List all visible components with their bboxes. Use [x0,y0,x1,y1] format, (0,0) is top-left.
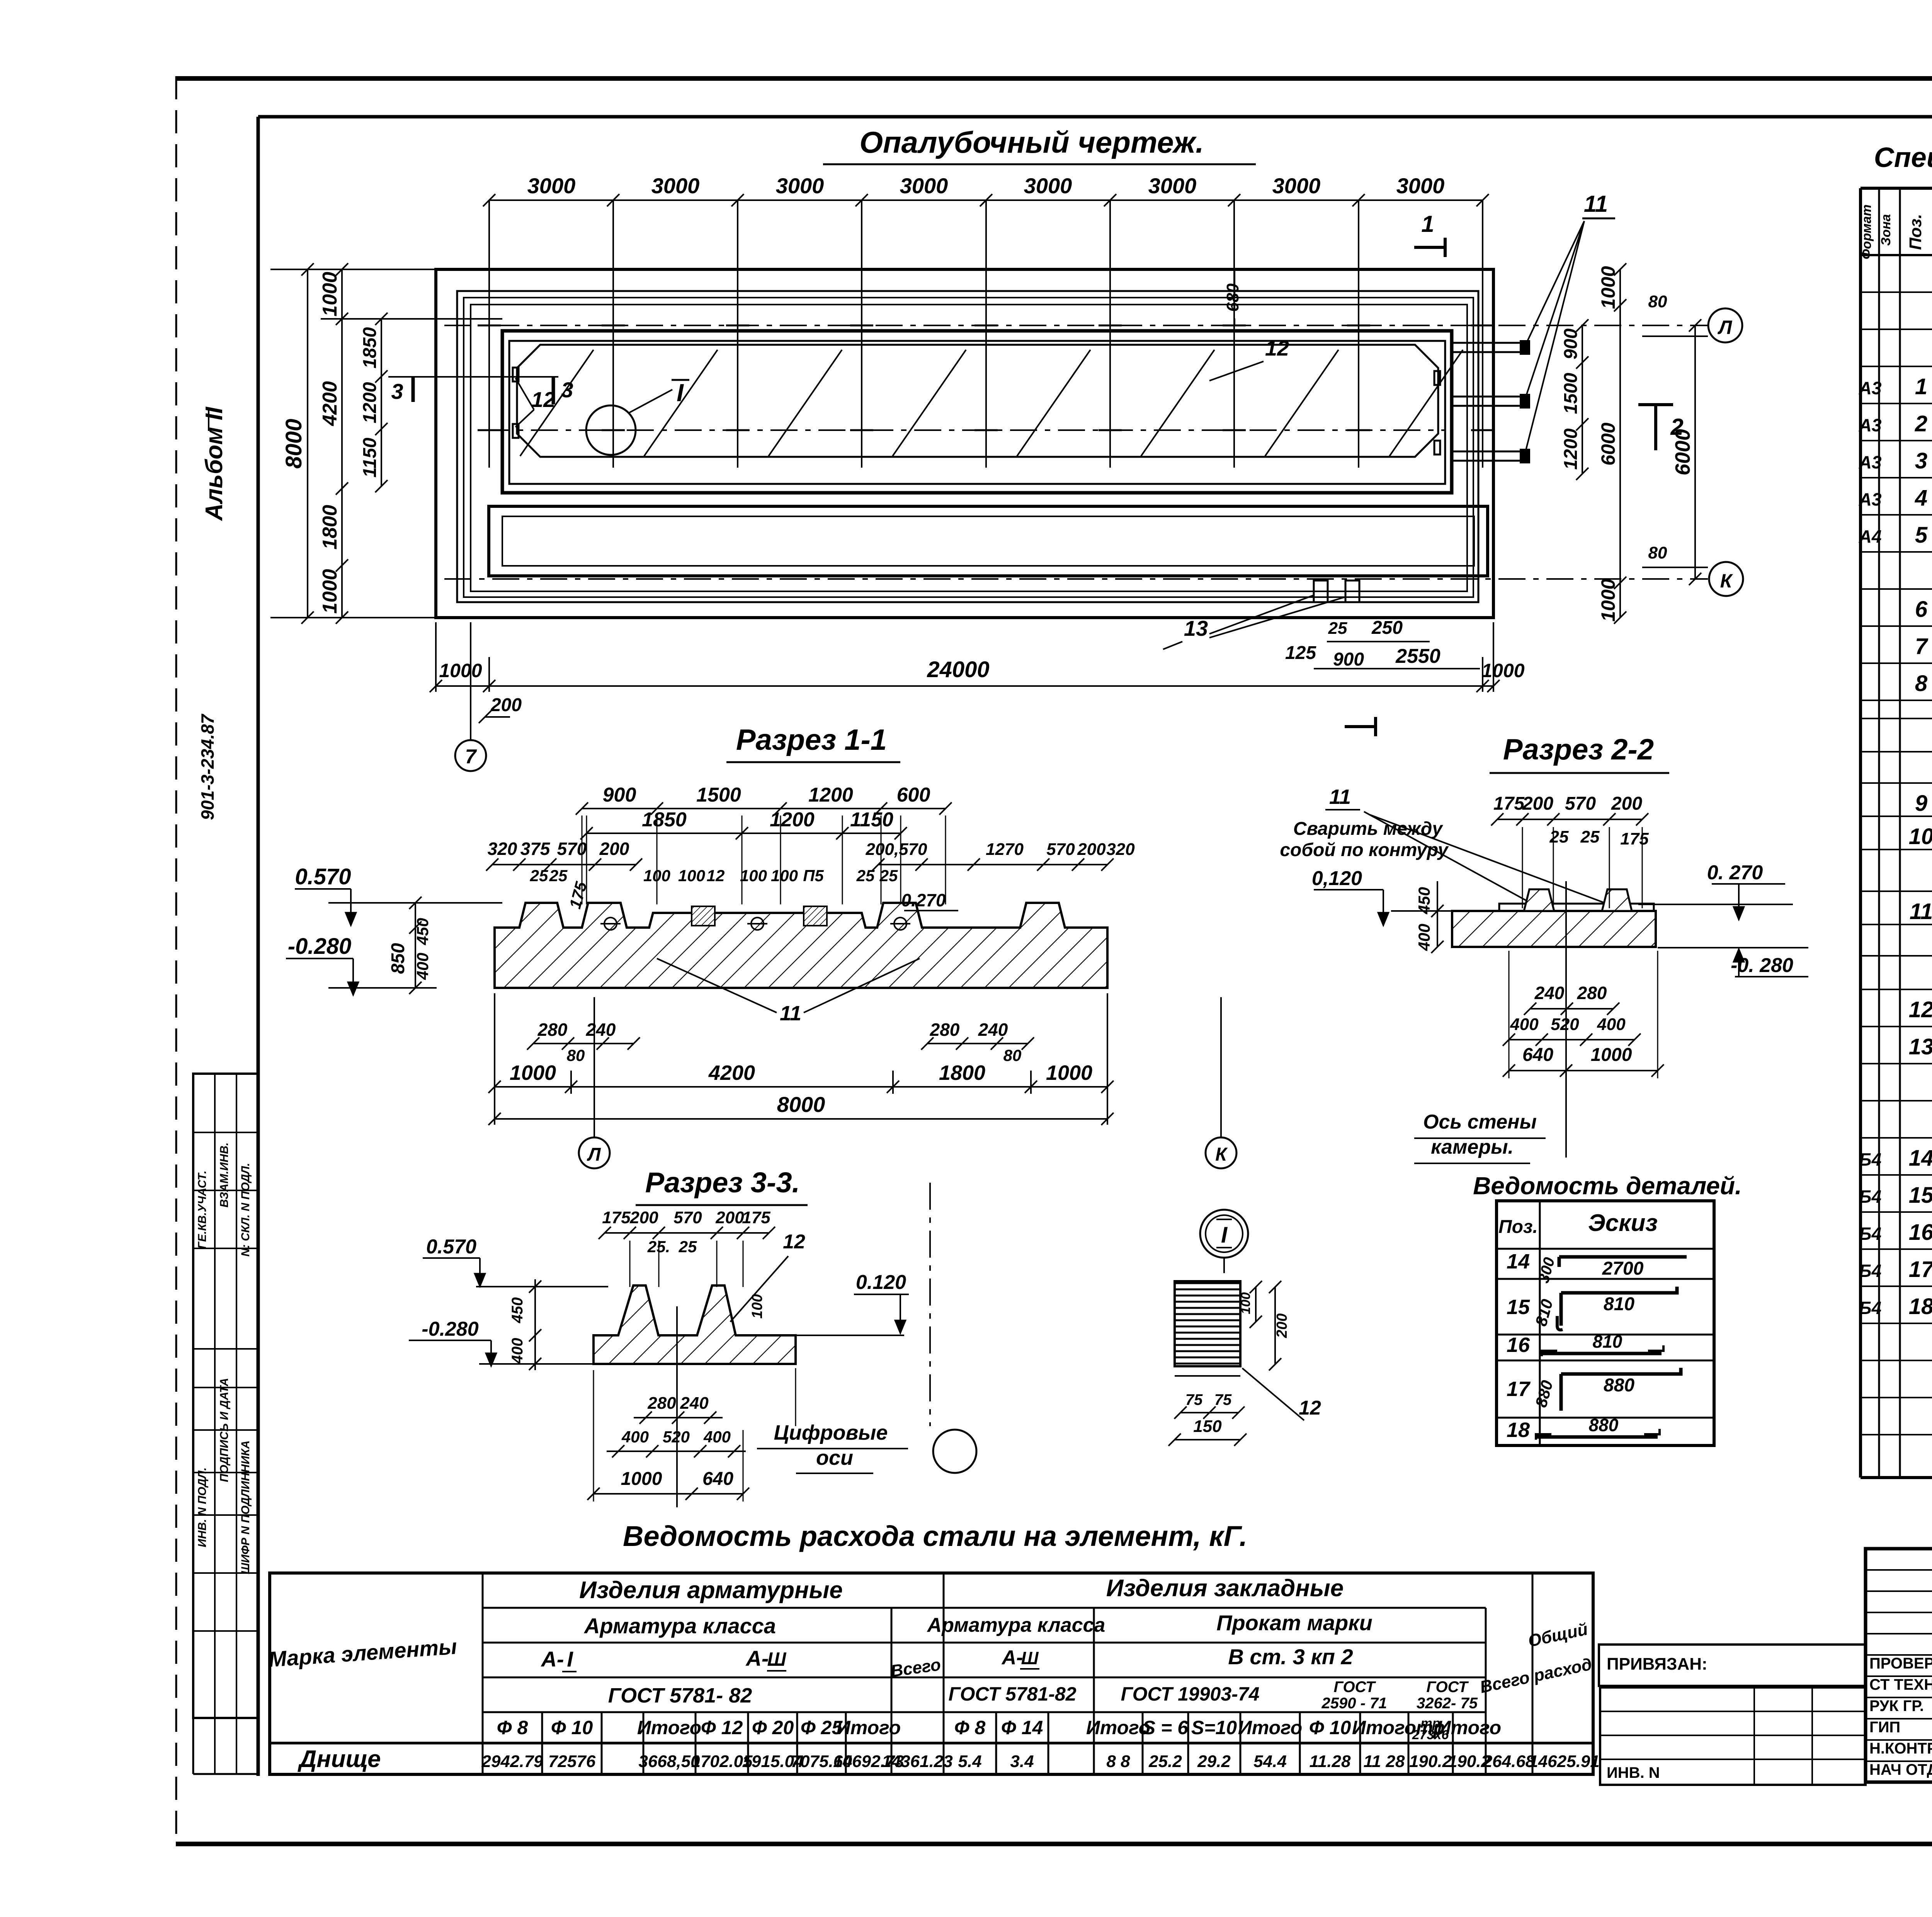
svg-text:-0.280: -0.280 [422,1318,479,1340]
svg-text:А-: А- [1001,1646,1023,1669]
svg-text:6000: 6000 [1597,422,1619,465]
svg-text:Арматура класса: Арматура класса [927,1614,1105,1636]
svg-text:ГОСТ 19903-74: ГОСТ 19903-74 [1121,1683,1260,1705]
svg-text:10: 10 [1909,824,1932,849]
svg-text:450: 450 [413,918,432,945]
svg-text:РУК ГР.: РУК ГР. [1869,1697,1924,1714]
svg-text:Б4: Б4 [1859,1187,1881,1207]
svg-text:901-3-234.87: 901-3-234.87 [197,713,218,820]
svg-text:3000: 3000 [1148,174,1197,198]
svg-text:4200: 4200 [708,1061,755,1084]
svg-text:Ф 14: Ф 14 [1001,1717,1043,1738]
svg-text:810: 810 [1593,1331,1622,1352]
svg-text:190.2: 190.2 [1409,1752,1452,1771]
svg-text:29.2: 29.2 [1197,1752,1231,1771]
svg-text:2700: 2700 [1602,1258,1644,1279]
svg-text:375: 375 [520,839,551,859]
svg-text:Итого: Итого [837,1717,901,1738]
svg-text:2942.79: 2942.79 [481,1752,543,1771]
svg-text:0.570: 0.570 [295,864,351,889]
svg-text:1800: 1800 [939,1061,985,1084]
svg-text:400: 400 [509,1338,526,1364]
svg-text:1850: 1850 [642,809,687,831]
svg-text:25: 25 [549,867,568,885]
svg-text:25.2: 25.2 [1148,1752,1182,1771]
svg-text:11: 11 [1584,191,1608,217]
svg-text:Альбом II: Альбом II [201,406,228,521]
svg-text:2: 2 [1915,411,1927,436]
svg-text:4200: 4200 [319,381,341,426]
svg-text:Ф 8: Ф 8 [954,1717,986,1738]
svg-text:75: 75 [1214,1391,1232,1408]
svg-text:Ось стены: Ось стены [1423,1111,1537,1133]
svg-text:3000: 3000 [1396,174,1445,198]
svg-text:175: 175 [742,1208,770,1227]
svg-text:810: 810 [1532,1297,1556,1328]
svg-text:камеры.: камеры. [1431,1136,1514,1158]
svg-text:ПРИВЯЗАН:: ПРИВЯЗАН: [1607,1655,1708,1674]
svg-text:1000: 1000 [319,569,341,614]
svg-text:175: 175 [1620,829,1649,848]
svg-text:5: 5 [1915,523,1928,548]
svg-text:Изделия арматурные: Изделия арматурные [579,1577,843,1604]
svg-text:3: 3 [391,379,403,403]
svg-text:А3: А3 [1859,452,1882,472]
svg-text:1000: 1000 [319,272,341,317]
svg-text:3000: 3000 [1272,174,1321,198]
svg-text:8000: 8000 [777,1092,825,1117]
svg-text:Итого: Итого [1352,1717,1416,1738]
svg-text:3000: 3000 [651,174,700,198]
svg-text:200: 200 [1274,1313,1290,1338]
svg-text:14: 14 [1507,1250,1530,1273]
svg-text:1200: 1200 [808,784,853,806]
svg-text:ВЗАМ.ИНВ.: ВЗАМ.ИНВ. [218,1142,231,1207]
svg-text:12: 12 [1265,336,1289,360]
svg-text:S=10: S=10 [1191,1717,1237,1738]
svg-text:12: 12 [707,867,725,885]
svg-text:N: СКЛ. N ПОДЛ.: N: СКЛ. N ПОДЛ. [239,1163,252,1257]
svg-text:12: 12 [783,1231,805,1253]
svg-text:ИНВ. N: ИНВ. N [1607,1764,1660,1781]
svg-text:8000: 8000 [281,419,306,468]
svg-text:Итого: Итого [637,1717,701,1738]
svg-text:Цифровые: Цифровые [774,1421,888,1444]
svg-text:1000: 1000 [1481,660,1524,681]
svg-text:1000: 1000 [510,1061,556,1084]
svg-text:17: 17 [1507,1377,1531,1401]
svg-text:125: 125 [1285,643,1316,663]
svg-text:Ф 12: Ф 12 [701,1717,743,1738]
svg-text:14361.23: 14361.23 [882,1752,953,1771]
svg-text:Разрез 2-2: Разрез 2-2 [1503,733,1654,766]
svg-text:54.4: 54.4 [1253,1752,1287,1771]
svg-text:Спецификация элементов монолит: Спецификация элементов монолитного днища… [1874,142,1932,173]
svg-text:А3: А3 [1859,415,1882,435]
svg-text:12: 12 [1909,997,1932,1022]
svg-text:320: 320 [488,839,517,859]
svg-text:25: 25 [679,1238,697,1256]
svg-text:НАЧ ОТД: НАЧ ОТД [1869,1761,1932,1778]
svg-text:100: 100 [678,867,705,885]
svg-text:ГОСТ: ГОСТ [1427,1679,1469,1696]
svg-text:1: 1 [1915,374,1927,399]
svg-text:100: 100 [749,1294,765,1318]
svg-text:200,570: 200,570 [865,840,927,859]
svg-text:200: 200 [629,1208,658,1227]
svg-text:Н.КОНТР: Н.КОНТР [1869,1740,1932,1757]
svg-text:Арматура класса: Арматура класса [583,1614,776,1638]
svg-text:Формат: Формат [1859,204,1874,259]
svg-text:100: 100 [771,867,798,885]
svg-text:15: 15 [1909,1183,1932,1208]
svg-text:25: 25 [856,867,875,885]
svg-text:680: 680 [1223,283,1242,312]
svg-text:1500: 1500 [696,784,741,806]
svg-text:2590 - 71: 2590 - 71 [1321,1695,1387,1712]
svg-text:25: 25 [530,867,548,885]
svg-text:Ф 20: Ф 20 [752,1717,794,1738]
svg-text:Б4: Б4 [1859,1298,1881,1318]
svg-text:Л: Л [587,1144,601,1165]
svg-text:100: 100 [1238,1292,1253,1314]
svg-text:900: 900 [1561,329,1581,359]
svg-text:1: 1 [1421,211,1434,237]
svg-text:Б4: Б4 [1859,1224,1881,1244]
svg-text:Разрез 1-1: Разрез 1-1 [736,724,887,756]
svg-text:75: 75 [1185,1391,1203,1408]
svg-text:-0.280: -0.280 [288,934,351,959]
svg-text:К: К [1720,570,1733,592]
svg-text:400: 400 [621,1428,649,1446]
svg-text:240: 240 [680,1394,709,1413]
svg-text:0.270: 0.270 [901,890,946,910]
svg-text:280: 280 [647,1394,676,1413]
svg-text:5.4: 5.4 [958,1752,981,1771]
svg-text:11: 11 [780,1002,801,1025]
svg-text:Зона: Зона [1879,214,1893,246]
svg-text:ГОСТ 5781-82: ГОСТ 5781-82 [948,1683,1076,1705]
svg-text:3262- 75: 3262- 75 [1417,1695,1478,1712]
svg-text:280: 280 [1577,983,1607,1003]
svg-text:80: 80 [1648,543,1667,562]
svg-text:1800: 1800 [319,505,341,550]
svg-text:Ф 8: Ф 8 [497,1717,528,1738]
svg-text:175: 175 [602,1208,631,1227]
svg-text:Поз.: Поз. [1906,214,1925,250]
svg-text:11 28: 11 28 [1364,1752,1405,1771]
svg-text:9: 9 [1915,791,1927,816]
svg-text:Ведомость расхода стали на эле: Ведомость расхода стали на элемент, кГ. [623,1520,1247,1552]
svg-text:8: 8 [1915,671,1928,696]
svg-text:17: 17 [1909,1257,1932,1282]
svg-text:880: 880 [1604,1375,1634,1396]
svg-text:200: 200 [715,1208,744,1227]
svg-text:собой по контуру: собой по контуру [1280,840,1449,860]
svg-text:13: 13 [1909,1034,1932,1059]
svg-text:А4: А4 [1859,526,1882,546]
svg-text:810: 810 [1604,1294,1634,1314]
svg-text:640: 640 [1522,1045,1553,1065]
svg-text:3000: 3000 [900,174,948,198]
svg-text:I: I [677,379,684,407]
svg-text:Общий: Общий [1526,1620,1589,1651]
svg-text:Всего расход: Всего расход [1478,1655,1594,1697]
svg-text:А-: А- [540,1647,564,1671]
svg-text:280: 280 [537,1020,568,1040]
svg-text:ГИП: ГИП [1869,1719,1900,1736]
svg-text:11: 11 [1910,899,1932,924]
svg-text:Ф 10: Ф 10 [1309,1717,1351,1738]
svg-text:Разрез 3-3.: Разрез 3-3. [645,1166,800,1199]
svg-text:К: К [1215,1144,1228,1165]
svg-text:13: 13 [1184,616,1208,640]
svg-text:1200: 1200 [770,809,815,831]
svg-text:25: 25 [1549,827,1569,846]
svg-text:ПРОВЕР: ПРОВЕР [1869,1655,1932,1672]
svg-text:П5: П5 [803,867,824,885]
svg-text:1200: 1200 [360,382,380,423]
svg-text:25: 25 [1328,619,1347,638]
svg-text:ГОСТ 5781- 82: ГОСТ 5781- 82 [608,1684,752,1707]
svg-text:ИНВ. N ПОДЛ.: ИНВ. N ПОДЛ. [196,1468,209,1548]
svg-text:3000: 3000 [776,174,824,198]
svg-text:1000: 1000 [1046,1061,1092,1084]
svg-text:Марка элементы: Марка элементы [268,1634,458,1672]
svg-text:0.120: 0.120 [856,1271,906,1294]
svg-text:3.4: 3.4 [1010,1752,1034,1771]
svg-text:3: 3 [1915,448,1927,473]
svg-text:А3: А3 [1859,378,1882,398]
svg-text:1000: 1000 [439,660,482,681]
svg-text:Л: Л [1718,317,1733,338]
svg-text:А-: А- [745,1646,769,1670]
svg-text:I: I [1221,1222,1228,1248]
svg-text:1000: 1000 [1591,1045,1632,1065]
svg-text:0. 270: 0. 270 [1707,861,1763,884]
svg-text:6: 6 [1915,597,1928,622]
svg-text:80: 80 [1648,292,1667,311]
svg-text:12: 12 [1299,1397,1321,1419]
svg-text:14: 14 [1909,1146,1932,1171]
svg-text:25: 25 [1580,827,1600,846]
svg-text:Б4: Б4 [1859,1261,1881,1281]
svg-text:400: 400 [1415,924,1433,951]
svg-text:8 8: 8 8 [1106,1752,1130,1771]
svg-text:200: 200 [1077,840,1106,859]
svg-text:Сварить между: Сварить между [1293,819,1443,839]
svg-text:1000: 1000 [621,1469,662,1489]
svg-text:25: 25 [879,867,898,885]
svg-text:Ведомость деталей.: Ведомость деталей. [1473,1172,1742,1200]
svg-text:400: 400 [703,1428,731,1446]
svg-text:18: 18 [1909,1294,1932,1319]
svg-text:200: 200 [1522,793,1553,814]
svg-text:Изделия закладные: Изделия закладные [1106,1575,1344,1602]
svg-text:200: 200 [599,839,629,859]
svg-text:570: 570 [1565,793,1596,814]
svg-text:0.570: 0.570 [426,1236,476,1258]
svg-text:В ст. 3 кп 2: В ст. 3 кп 2 [1228,1645,1353,1669]
svg-text:600: 600 [897,784,930,806]
svg-text:250: 250 [1371,618,1403,638]
svg-text:450: 450 [509,1297,526,1324]
svg-text:2550: 2550 [1395,645,1440,667]
svg-text:1270: 1270 [986,840,1024,859]
svg-text:Итого: Итого [1238,1717,1302,1738]
svg-text:400: 400 [1510,1015,1539,1034]
svg-text:S = 6: S = 6 [1143,1717,1189,1738]
svg-text:ПОДПИСЬ И ДАТА: ПОДПИСЬ И ДАТА [218,1378,231,1482]
svg-text:Опалубочный чертеж.: Опалубочный чертеж. [859,125,1204,159]
svg-text:0,120: 0,120 [1312,867,1362,890]
svg-text:300: 300 [1535,1256,1558,1285]
svg-text:7: 7 [465,746,477,768]
svg-text:1150: 1150 [360,438,380,478]
svg-text:3000: 3000 [527,174,576,198]
svg-text:16: 16 [1507,1333,1530,1357]
svg-text:1500: 1500 [1561,373,1581,414]
svg-text:200: 200 [490,695,522,715]
svg-text:80: 80 [567,1046,585,1064]
svg-text:200: 200 [1611,793,1642,814]
svg-text:3: 3 [561,378,573,402]
svg-text:6000: 6000 [1671,429,1694,475]
svg-text:СТ ТЕХН: СТ ТЕХН [1869,1676,1932,1693]
svg-text:11: 11 [1329,785,1351,809]
svg-text:640: 640 [702,1469,733,1489]
svg-text:880: 880 [1589,1415,1619,1435]
svg-text:240: 240 [1534,983,1565,1003]
svg-text:18: 18 [1507,1418,1530,1442]
svg-text:ГОСТ: ГОСТ [1334,1679,1377,1696]
svg-text:Ш: Ш [767,1648,787,1670]
svg-text:570: 570 [1046,840,1075,859]
svg-text:520: 520 [663,1428,690,1446]
svg-text:ГЕ.КВ.УЧАСТ.: ГЕ.КВ.УЧАСТ. [196,1171,209,1249]
svg-text:900: 900 [1333,649,1364,670]
svg-text:570: 570 [673,1208,702,1227]
svg-text:7: 7 [1915,634,1929,659]
svg-text:ШИФР N ПОДЛИННИКА: ШИФР N ПОДЛИННИКА [239,1440,252,1574]
svg-text:100: 100 [740,867,767,885]
svg-text:1000: 1000 [1597,579,1619,621]
svg-text:1850: 1850 [360,327,380,368]
svg-text:24000: 24000 [927,657,989,682]
svg-text:оси: оси [816,1446,853,1469]
svg-text:280: 280 [930,1020,960,1040]
svg-text:264.68: 264.68 [1483,1752,1535,1771]
svg-text:4: 4 [1915,485,1927,511]
svg-text:1000: 1000 [1597,266,1619,309]
svg-text:14625.91: 14625.91 [1529,1752,1600,1771]
svg-text:Б4: Б4 [1859,1149,1881,1170]
svg-text:320: 320 [1106,840,1135,859]
svg-text:3000: 3000 [1024,174,1072,198]
svg-text:80: 80 [1003,1046,1022,1064]
svg-text:15: 15 [1507,1296,1530,1319]
svg-text:273х6: 273х6 [1412,1728,1449,1742]
svg-text:Прокат марки: Прокат марки [1216,1611,1372,1635]
svg-text:240: 240 [978,1020,1008,1040]
svg-text:Днище: Днище [297,1746,381,1772]
svg-text:Ф 10: Ф 10 [551,1717,593,1738]
svg-text:Ш: Ш [1021,1648,1039,1668]
svg-text:400: 400 [1597,1015,1626,1034]
svg-text:400: 400 [413,953,432,980]
svg-text:Эскиз: Эскиз [1588,1210,1658,1236]
svg-text:150: 150 [1193,1417,1222,1436]
svg-text:850: 850 [388,943,408,974]
svg-text:А3: А3 [1859,489,1882,509]
svg-text:Итого: Итого [1086,1717,1150,1738]
svg-text:11.28: 11.28 [1310,1752,1351,1771]
svg-text:175: 175 [1493,793,1525,814]
svg-text:900: 900 [603,784,636,806]
svg-text:880: 880 [1532,1378,1556,1409]
svg-text:16: 16 [1909,1220,1932,1245]
svg-text:72576: 72576 [548,1752,596,1771]
svg-text:240: 240 [586,1020,616,1040]
svg-text:I: I [567,1647,573,1671]
svg-text:Поз.: Поз. [1498,1217,1538,1237]
svg-text:520: 520 [1551,1015,1579,1034]
svg-text:1150: 1150 [850,809,893,831]
svg-text:1200: 1200 [1561,428,1581,470]
